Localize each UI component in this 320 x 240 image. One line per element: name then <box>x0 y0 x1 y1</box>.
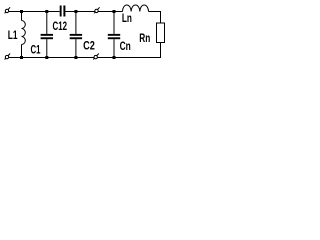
junction (bottom, C2) <box>74 56 77 59</box>
wire (top wire: mid terminal to Ln) <box>98 11 122 13</box>
svg-text:L1: L1 <box>8 28 18 42</box>
capacitor C1 (shunt) leads <box>46 12 48 58</box>
junction (bottom, C1) <box>45 56 48 59</box>
wire (bottom wire: mid terminal to right corner, up to Rn bottom) <box>97 43 160 58</box>
wire (top wire: Ln to right corner, down to Rn top) <box>149 12 161 24</box>
terminal P3 (bottom-left port) <box>5 54 11 60</box>
terminal P2 (top-middle port) <box>94 7 100 13</box>
resistor Rn (box) <box>157 23 165 43</box>
svg-text:Rn: Rn <box>139 31 150 45</box>
capacitor C2 (shunt) leads <box>75 12 77 58</box>
inductor Ln (series, horizontal coil) <box>123 5 149 12</box>
svg-text:C12: C12 <box>53 19 68 33</box>
svg-text:C1: C1 <box>31 42 41 56</box>
capacitor Cn (shunt) leads <box>113 12 115 58</box>
capacitor C12 (series) plates <box>60 6 66 17</box>
svg-text:C2: C2 <box>83 39 95 53</box>
junction (top, C2) <box>74 10 77 13</box>
capacitor C2 plates <box>70 34 82 39</box>
inductor L1 (shunt, vertical coil) <box>22 12 26 58</box>
terminal P4 (bottom-middle port) <box>93 54 99 60</box>
junction (top, C1) <box>45 10 48 13</box>
wire (top wire: C12 right plate to mid terminal) <box>65 11 95 13</box>
capacitor C1 plates <box>41 34 53 39</box>
junction (bottom, Cn) <box>113 56 116 59</box>
junction (top, L1) <box>20 10 23 13</box>
svg-text:Ln: Ln <box>122 11 132 25</box>
svg-text:Cn: Cn <box>120 39 131 53</box>
junction (bottom, L1) <box>20 56 23 59</box>
wire (bottom wire: port to mid terminal) <box>9 57 95 59</box>
wire (top wire: port to C12 left plate) <box>9 11 60 13</box>
capacitor Cn plates <box>108 34 120 39</box>
terminal P1 (top-left input port) <box>5 7 11 13</box>
junction (top, Cn) <box>113 10 116 13</box>
